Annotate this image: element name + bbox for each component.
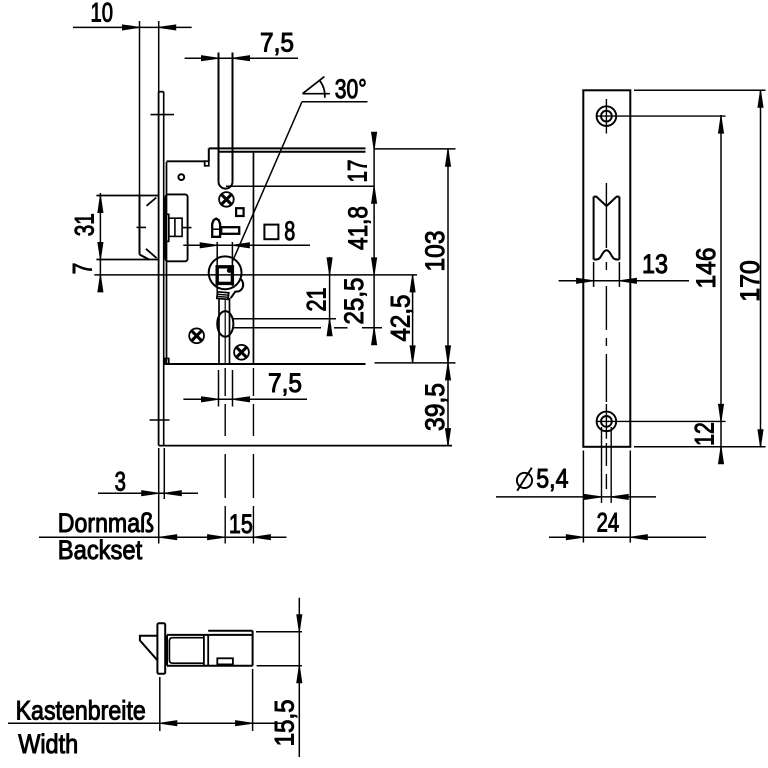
svg-text:146: 146 xyxy=(691,248,721,289)
svg-text:24: 24 xyxy=(597,508,620,538)
latch bolt xyxy=(96,196,158,260)
dimension dia 5,4 xyxy=(496,427,656,503)
angle symbol xyxy=(303,74,367,104)
svg-text:Dornmaß: Dornmaß xyxy=(58,508,154,538)
dimension 170 xyxy=(634,90,766,447)
square follower xyxy=(209,256,243,299)
dimension 103 / 39,5 xyxy=(375,149,456,446)
svg-text:42,5: 42,5 xyxy=(386,295,416,342)
dimension 21 xyxy=(302,257,333,336)
svg-text:8: 8 xyxy=(284,216,295,246)
lock case outline xyxy=(165,148,366,364)
svg-text:39,5: 39,5 xyxy=(420,383,450,431)
dimension 3 xyxy=(98,448,198,499)
svg-text:31: 31 xyxy=(70,213,100,236)
plate centerline xyxy=(605,183,607,489)
dimension backset / 15 xyxy=(39,448,287,544)
dimension 10 xyxy=(73,0,192,196)
faceplate side view xyxy=(159,92,164,446)
dimension 17 / 41,8 / 25,5 xyxy=(339,132,376,345)
svg-text:Width: Width xyxy=(18,729,78,759)
screw xyxy=(189,328,204,343)
svg-text:17: 17 xyxy=(343,160,373,183)
dimension 13 xyxy=(559,249,689,287)
bottom view latch wedge xyxy=(140,636,158,661)
faceplate front view xyxy=(583,90,630,447)
reference lines from oval xyxy=(233,318,337,320)
follower centerline xyxy=(94,274,417,276)
svg-text:5,4: 5,4 xyxy=(536,464,568,494)
svg-text:13: 13 xyxy=(642,249,668,279)
svg-text:30°: 30° xyxy=(335,74,367,104)
break tick bottom xyxy=(150,419,170,421)
pin lever detail xyxy=(212,219,239,237)
svg-text:3: 3 xyxy=(115,467,126,497)
svg-text:15: 15 xyxy=(229,509,253,539)
bottom view faceplate bar xyxy=(157,623,165,674)
small square detail xyxy=(236,208,244,216)
dimension 7,5 top xyxy=(185,27,298,60)
latch tail slot xyxy=(219,298,230,364)
bottom reference line (faceplate bottom) xyxy=(159,445,452,447)
svg-text:Kastenbreite: Kastenbreite xyxy=(16,695,146,725)
dimension 31 / 7 xyxy=(68,193,103,292)
dimension width (Kastenbreite) xyxy=(8,669,284,731)
bottom screw hole xyxy=(597,404,617,439)
oval hole xyxy=(217,311,233,337)
svg-text:25,5: 25,5 xyxy=(339,278,369,325)
bottom view case xyxy=(167,631,253,666)
svg-text:41,8: 41,8 xyxy=(343,206,373,250)
latch cutout xyxy=(594,197,620,260)
screw xyxy=(219,192,234,207)
svg-text:Backset: Backset xyxy=(58,535,143,565)
svg-text:7,5: 7,5 xyxy=(260,27,294,57)
svg-text:103: 103 xyxy=(420,231,450,272)
dimension 7,5 bottom xyxy=(183,368,307,407)
dimension square 8 xyxy=(183,216,310,297)
centerline dashes below case xyxy=(224,368,226,544)
dimension 24 xyxy=(549,451,706,543)
rivet xyxy=(178,174,184,180)
svg-text:7,5: 7,5 xyxy=(268,368,302,398)
latch guide bracket xyxy=(165,194,192,261)
break tick top xyxy=(151,114,175,116)
svg-text:170: 170 xyxy=(735,260,765,302)
dimension 146 / 12 xyxy=(597,115,726,464)
latch slot xyxy=(219,53,233,189)
dimension 15,5 xyxy=(256,598,302,757)
30deg leader xyxy=(232,102,368,263)
dimension 42,5 xyxy=(386,275,416,363)
top screw hole xyxy=(597,99,617,134)
screw xyxy=(234,345,249,360)
line 17-bottom reference xyxy=(226,185,374,187)
svg-text:7: 7 xyxy=(68,263,98,275)
svg-text:21: 21 xyxy=(302,288,332,312)
svg-text:12: 12 xyxy=(689,422,719,446)
svg-text:10: 10 xyxy=(91,0,114,28)
